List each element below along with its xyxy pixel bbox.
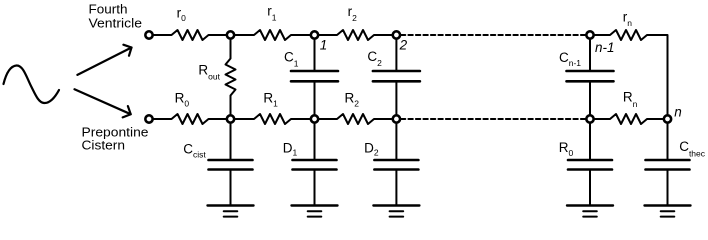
svg-text:rn: rn <box>623 10 633 28</box>
svg-text:Ccist: Ccist <box>183 141 206 159</box>
svg-text:2: 2 <box>399 38 408 53</box>
svg-text:Cthec: Cthec <box>679 139 706 159</box>
svg-text:Rn: Rn <box>623 90 638 110</box>
svg-text:R1: R1 <box>263 90 278 108</box>
svg-text:Cistern: Cistern <box>82 138 126 153</box>
svg-text:Ventricle: Ventricle <box>89 15 143 30</box>
svg-text:n-1: n-1 <box>595 40 615 55</box>
svg-text:r0: r0 <box>177 5 187 23</box>
svg-text:R0: R0 <box>559 140 574 158</box>
svg-text:R2: R2 <box>345 90 360 108</box>
svg-text:1: 1 <box>320 38 328 53</box>
svg-text:r2: r2 <box>348 4 358 23</box>
svg-text:C2: C2 <box>367 49 382 68</box>
svg-text:D1: D1 <box>283 140 298 157</box>
svg-text:r1: r1 <box>267 4 277 23</box>
svg-text:n: n <box>674 104 682 119</box>
svg-text:R0: R0 <box>175 90 190 108</box>
svg-text:Cn-1: Cn-1 <box>559 50 581 68</box>
svg-text:C1: C1 <box>284 49 299 68</box>
svg-text:D2: D2 <box>364 140 379 157</box>
svg-text:Rout: Rout <box>198 63 220 82</box>
